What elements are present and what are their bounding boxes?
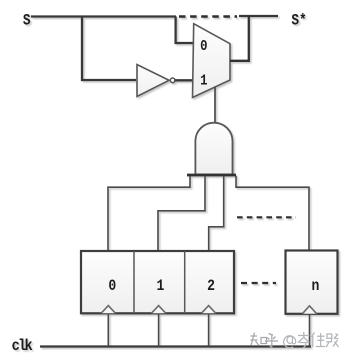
wire dashed continuation (top) bbox=[179, 15, 237, 17]
wire dashed continuation (middle) bbox=[237, 216, 296, 218]
flip-flop 1 clock triangle bbox=[151, 306, 165, 314]
mux input 0 pin label bbox=[200, 39, 207, 55]
flip-flop 0 label bbox=[108, 278, 116, 295]
svg-text:1: 1 bbox=[200, 73, 207, 89]
watermark zhihu @lijiajun bbox=[251, 332, 339, 348]
svg-text:0: 0 bbox=[200, 39, 207, 55]
flip-flop 2 label bbox=[207, 278, 215, 295]
wire AND input 1 from register 0 bbox=[108, 176, 190, 251]
wire AND input 4 from register n bbox=[236, 176, 309, 251]
AND gate base bar bbox=[187, 174, 236, 177]
AND gate U3 (output up) bbox=[195, 123, 232, 175]
wire clk riser to flip-flop 1 bbox=[158, 314, 160, 347]
wire clk horizontal bbox=[40, 345, 311, 347]
svg-text:0: 0 bbox=[108, 278, 116, 295]
svg-text:2: 2 bbox=[207, 278, 215, 295]
wire dashed continuation (register row) bbox=[241, 282, 276, 284]
wire AND input 2 from register 1 bbox=[158, 176, 205, 251]
wire to S* output bbox=[239, 15, 278, 17]
wire S branch down to mux input 0 bbox=[176, 17, 193, 44]
wire AND input 3 from register 2 bbox=[209, 176, 224, 251]
mux input 1 pin label bbox=[200, 73, 207, 89]
flip-flop n label bbox=[311, 278, 319, 295]
inverter U2 bbox=[137, 65, 175, 97]
mux U1 bbox=[193, 24, 231, 98]
wire clk riser to flip-flop 2 bbox=[208, 314, 210, 347]
svg-text:1: 1 bbox=[156, 278, 164, 295]
svg-text:n: n bbox=[311, 278, 319, 295]
wire S branch down to inverter bbox=[82, 17, 136, 81]
svg-text:clk: clk bbox=[12, 338, 33, 355]
flip-flop 1 label bbox=[156, 278, 164, 295]
flip-flop n clock triangle bbox=[302, 306, 316, 314]
wire clk riser to flip-flop 0 bbox=[107, 314, 109, 347]
register bank box (flip-flops 0,1,2) bbox=[81, 251, 234, 313]
flip-flop 2 clock triangle bbox=[201, 306, 215, 314]
svg-text:S: S bbox=[23, 13, 31, 31]
wire clk riser to flip-flop n bbox=[309, 314, 311, 347]
wire mux select from AND gate bbox=[214, 87, 216, 123]
flip-flop 0 clock triangle bbox=[101, 306, 115, 314]
wire S horizontal bbox=[31, 15, 176, 17]
node S label bbox=[23, 13, 31, 31]
svg-text:S*: S* bbox=[291, 12, 306, 30]
node clk label bbox=[12, 338, 33, 355]
flip-flop n box bbox=[286, 251, 338, 314]
node S* label bbox=[291, 12, 306, 30]
wire mux output up to S* line bbox=[230, 16, 249, 61]
wire inverter output to mux input 1 bbox=[175, 79, 193, 81]
